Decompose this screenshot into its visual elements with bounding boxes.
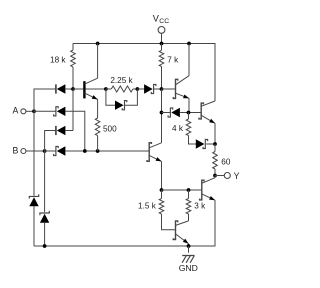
wire: clamp A to ground rail bbox=[33, 206, 35, 246]
diode D3 (B to Q1 base) bbox=[57, 126, 66, 135]
svg-text:B: B bbox=[13, 145, 19, 155]
svg-text:18 k: 18 k bbox=[50, 55, 66, 64]
wire: A clamp branch bbox=[33, 111, 35, 195]
node: collector node at D7 row bbox=[160, 111, 164, 115]
node: 500 ohm joins emitter row bbox=[96, 149, 100, 153]
wire: clamp B to ground rail bbox=[44, 223, 46, 246]
wire: Q1 base row to 2.25k bbox=[73, 88, 106, 90]
wire: A row to emitter node column bbox=[34, 111, 85, 151]
wire: D3 anode to base node column bbox=[65, 130, 73, 132]
resistor 3k bbox=[186, 190, 191, 221]
svg-text:500: 500 bbox=[103, 125, 117, 134]
node: rail junction at Q3 collector bbox=[187, 42, 191, 46]
diode D1 (A to Q1 base) bbox=[57, 84, 66, 93]
wire: Q3 collector to rail bbox=[188, 44, 190, 76]
wire: parallel diode branch of 2.25k bbox=[106, 89, 137, 105]
wire: D1 to base node bbox=[65, 88, 73, 90]
schottky diode D7 bbox=[171, 108, 180, 117]
svg-text:A: A bbox=[13, 106, 19, 116]
input A terminal bbox=[21, 109, 26, 114]
node: rail junction at 7k bbox=[160, 42, 164, 46]
wire: Q6 emitter to ground rail bbox=[188, 244, 190, 246]
schottky diode D8 parallel with 2.25k bbox=[115, 101, 124, 110]
svg-text:3 k: 3 k bbox=[194, 202, 206, 211]
node: output Y node bbox=[213, 174, 217, 178]
node: clamp B at ground rail bbox=[43, 244, 47, 248]
resistor 18k bbox=[71, 44, 76, 90]
wire: input A to junction bbox=[26, 110, 34, 112]
schottky diode D2 (input A row) bbox=[57, 107, 66, 116]
schottky diode D4 (input B row) bbox=[57, 146, 66, 155]
wire: Q5 collector to Y node bbox=[214, 176, 216, 178]
schottky diode D5 (series to phase splitter collector node) bbox=[144, 84, 153, 93]
node: Q4 emitter / 60 ohm junction bbox=[213, 142, 217, 146]
wire: Q5 emitter to ground rail bbox=[214, 200, 216, 246]
node: input B junction bbox=[43, 149, 47, 153]
wire: Q3 emitter to D7 row bbox=[188, 98, 190, 112]
ground symbol bbox=[182, 256, 194, 263]
wire: Q1 emitter to 500 ohm bbox=[97, 99, 99, 118]
wire: B row to Q2 base bbox=[45, 150, 149, 152]
wire: VCC stub bbox=[161, 33, 163, 43]
svg-text:7 k: 7 k bbox=[167, 55, 179, 64]
svg-text:60: 60 bbox=[221, 158, 231, 167]
svg-text:Y: Y bbox=[234, 171, 240, 181]
wire: collector node column bbox=[161, 89, 163, 143]
VCC terminal bbox=[158, 27, 165, 34]
transistor Q1 bbox=[83, 78, 97, 99]
wire: base node down to D3 row (crosses A row) bbox=[72, 89, 74, 131]
transistor Q4 bbox=[199, 101, 215, 123]
node: 3k top / Q5 base bbox=[187, 188, 191, 192]
input B terminal bbox=[21, 149, 26, 154]
resistor 2.25k bbox=[106, 86, 137, 92]
wire: D3 row bbox=[45, 131, 56, 152]
wire: A up to diode D1 row bbox=[34, 89, 56, 111]
node: input A junction bbox=[32, 109, 36, 113]
wire: D7 row bbox=[162, 112, 202, 114]
wire: Q2 emitter down to squaring row bbox=[161, 161, 163, 190]
wire: squaring network row bbox=[162, 189, 202, 191]
wire: top VCC rail bbox=[73, 44, 215, 102]
wire: ground stub bbox=[188, 246, 190, 253]
svg-text:GND: GND bbox=[179, 263, 198, 273]
svg-text:2.25 k: 2.25 k bbox=[110, 76, 133, 85]
resistor 1.5k bbox=[159, 190, 175, 230]
transistor Q5 bbox=[200, 178, 215, 201]
node: rail junction at Q1 collector bbox=[96, 42, 100, 46]
schottky clamp diode on input A bbox=[29, 197, 38, 206]
resistor 500 bbox=[95, 118, 100, 151]
transistor Q2 bbox=[147, 143, 162, 162]
transistor Q6 bbox=[173, 221, 188, 244]
schottky diode D6 (4k to Q4 emitter) bbox=[196, 139, 205, 148]
node: A-branch joins emitter row bbox=[83, 149, 87, 153]
svg-text:CC: CC bbox=[159, 18, 169, 25]
output Y terminal bbox=[224, 173, 230, 179]
wire: ground rail bbox=[34, 200, 215, 246]
wire: Y stub bbox=[215, 175, 224, 177]
resistor 7k bbox=[159, 44, 164, 90]
schottky clamp diode on input B bbox=[40, 214, 49, 223]
wire: Q3 base bbox=[162, 88, 176, 90]
wire: input B to junction bbox=[26, 150, 44, 152]
wire: to series schottky diode D5 bbox=[137, 88, 144, 90]
svg-text:1.5 k: 1.5 k bbox=[138, 202, 157, 211]
node: Q4 base node bbox=[187, 111, 191, 115]
node: phase splitter collector node at Q3 base row bbox=[160, 87, 164, 91]
resistor 4k bbox=[186, 113, 196, 145]
node N1: Q1 base node bbox=[71, 87, 75, 91]
svg-text:4 k: 4 k bbox=[172, 124, 184, 133]
resistor 60 bbox=[213, 144, 218, 176]
wire: Q4 emitter down bbox=[214, 123, 216, 144]
node: 1.5k top / Q2 emitter bbox=[160, 188, 164, 192]
node: 2.25k left junction bbox=[104, 87, 108, 91]
wire: Q1 collector to rail bbox=[97, 44, 99, 79]
node: 2.25k right junction bbox=[136, 87, 140, 91]
wire: D5 to collector node column bbox=[154, 88, 162, 90]
node: ground junction bbox=[187, 244, 191, 248]
wire: B clamp branch bbox=[44, 151, 46, 212]
wire: D6 to Q4 emitter column bbox=[206, 143, 215, 145]
transistor Q3 bbox=[173, 76, 189, 99]
